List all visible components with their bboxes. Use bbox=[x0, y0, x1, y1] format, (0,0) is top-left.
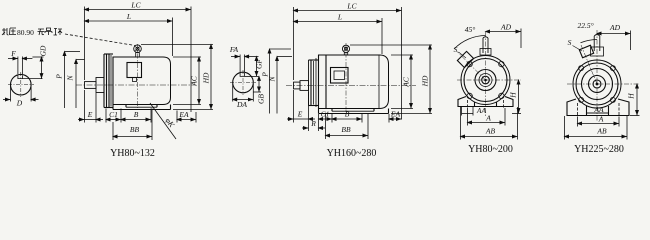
end bracket bbox=[308, 60, 310, 106]
svg-text:BB: BB bbox=[130, 125, 140, 134]
22.5 deg arc and label bbox=[581, 40, 598, 43]
foot hole ticks bbox=[577, 103, 579, 117]
dim D bbox=[10, 86, 12, 102]
svg-text:GD: GD bbox=[39, 45, 48, 56]
dim L bbox=[172, 18, 174, 57]
C1 bbox=[106, 119, 121, 121]
dim N view2 bbox=[277, 56, 292, 58]
eyebolt bbox=[342, 45, 349, 52]
dim LC bbox=[84, 7, 86, 81]
svg-text:L: L bbox=[337, 13, 342, 22]
stepped shaft bbox=[294, 82, 301, 89]
svg-text:AC: AC bbox=[402, 76, 411, 88]
svg-text:B: B bbox=[345, 110, 350, 119]
eyebolt bbox=[593, 36, 595, 51]
svg-text:AB: AB bbox=[596, 127, 607, 136]
dim H bbox=[512, 113, 521, 115]
svg-text:LC: LC bbox=[130, 1, 141, 10]
svg-text:22.5°: 22.5° bbox=[577, 21, 593, 30]
eyebolt bbox=[134, 45, 142, 53]
dim GB bbox=[253, 91, 261, 93]
AA bbox=[587, 112, 609, 114]
terminal box at 45 bbox=[457, 51, 473, 67]
feet bbox=[458, 97, 475, 107]
nameplate bbox=[127, 63, 142, 78]
leader from note to eyebolt bbox=[65, 34, 135, 46]
svg-text:φK: φK bbox=[164, 116, 177, 130]
svg-text:AB: AB bbox=[485, 127, 496, 136]
svg-text:F: F bbox=[10, 49, 16, 58]
svg-text:GF: GF bbox=[255, 59, 264, 69]
环 bbox=[54, 29, 63, 36]
svg-text:S: S bbox=[568, 38, 572, 47]
dim GD bbox=[22, 78, 42, 80]
R bbox=[302, 127, 309, 129]
svg-text:YH225~280: YH225~280 bbox=[574, 144, 624, 155]
dim F bbox=[17, 57, 19, 75]
feet bbox=[331, 109, 333, 112]
body bbox=[319, 55, 389, 109]
机 bbox=[2, 28, 9, 35]
leader phi-K bbox=[150, 103, 176, 139]
E bbox=[78, 119, 85, 121]
dim FA bbox=[239, 55, 241, 73]
BB bbox=[325, 114, 327, 139]
svg-text:H: H bbox=[627, 93, 636, 100]
keyway notch bbox=[18, 75, 23, 78]
AB bbox=[564, 116, 566, 140]
foot hole ticks bbox=[467, 100, 469, 108]
svg-text:45°: 45° bbox=[465, 25, 476, 34]
AA bbox=[461, 107, 463, 116]
feet bbox=[112, 105, 114, 110]
dim HD view2 bbox=[350, 44, 432, 46]
svg-text:EA: EA bbox=[390, 110, 401, 119]
svg-text:HD: HD bbox=[202, 72, 211, 84]
B bbox=[332, 118, 362, 120]
svg-text:C1: C1 bbox=[109, 110, 118, 119]
shaft centerline bbox=[76, 84, 196, 86]
svg-text:HD: HD bbox=[421, 75, 430, 87]
svg-text:E: E bbox=[87, 110, 93, 119]
bottom dim chain bbox=[84, 90, 86, 123]
dim H bbox=[630, 115, 640, 117]
svg-text:BB: BB bbox=[341, 125, 351, 134]
svg-text:R: R bbox=[310, 119, 316, 128]
fan cowl seam bbox=[378, 55, 380, 109]
svg-text:N: N bbox=[268, 76, 277, 83]
A bbox=[577, 117, 579, 127]
svg-text:80.90: 80.90 bbox=[17, 28, 34, 37]
shaft end view circle D bbox=[10, 74, 31, 95]
svg-text:A: A bbox=[485, 114, 491, 123]
svg-text:DA: DA bbox=[236, 100, 247, 109]
B bbox=[121, 119, 151, 121]
centerlines bbox=[567, 83, 640, 85]
centerlines bbox=[457, 79, 521, 81]
dim AD bbox=[630, 31, 632, 51]
svg-text:E: E bbox=[297, 110, 303, 119]
terminal box bbox=[331, 68, 349, 84]
vertical centerline of eyebolt bbox=[137, 44, 139, 108]
eyebolt bbox=[482, 38, 484, 53]
svg-text:D: D bbox=[16, 99, 23, 108]
svg-text:AD: AD bbox=[500, 23, 512, 32]
shaft bbox=[85, 82, 97, 89]
note: chinese annotation 机座80、90无吊环 (drawn as strokes, no CJK font available) bbox=[2, 28, 62, 37]
C1 bbox=[319, 118, 333, 120]
svg-text:B: B bbox=[134, 110, 139, 119]
terminal box at 22.5 bbox=[579, 45, 593, 58]
BB bbox=[112, 122, 114, 140]
dim GF bbox=[245, 75, 259, 77]
EA bbox=[177, 119, 196, 121]
svg-text:AD: AD bbox=[609, 23, 621, 32]
svg-text:GB: GB bbox=[257, 94, 266, 104]
svg-text:AA: AA bbox=[476, 106, 487, 115]
dim AC bbox=[173, 56, 201, 58]
无 bbox=[38, 29, 45, 35]
svg-text:AA: AA bbox=[593, 105, 604, 114]
svg-text:H: H bbox=[509, 92, 518, 99]
svg-text:LC: LC bbox=[346, 2, 357, 11]
座 bbox=[10, 28, 17, 35]
dim N bbox=[76, 59, 85, 61]
eyebolt centerline bbox=[345, 43, 347, 111]
dim L view2 bbox=[381, 18, 383, 54]
end bracket / bearing boss bbox=[96, 78, 104, 93]
svg-text:YH80~200: YH80~200 bbox=[468, 144, 513, 155]
feet bbox=[567, 99, 587, 116]
svg-text:C1: C1 bbox=[321, 110, 330, 119]
AB bbox=[460, 107, 462, 140]
A bbox=[467, 108, 469, 126]
dim AC view2 bbox=[391, 54, 413, 56]
shaft end view circle DA bbox=[233, 72, 254, 93]
svg-text:AC: AC bbox=[190, 75, 199, 87]
motor body bbox=[113, 57, 171, 105]
45 deg arc and label bbox=[454, 36, 486, 50]
svg-text:L: L bbox=[126, 12, 131, 21]
吊 bbox=[45, 28, 52, 35]
dim LC view2 bbox=[293, 7, 295, 80]
dim DA bbox=[232, 84, 234, 102]
dim HD bbox=[141, 44, 213, 46]
dim P view2 bbox=[270, 48, 292, 50]
svg-text:FA: FA bbox=[229, 45, 239, 54]
svg-text:N: N bbox=[66, 75, 75, 82]
E bbox=[287, 118, 294, 120]
svg-text:YH80~132: YH80~132 bbox=[110, 148, 155, 159]
svg-text:YH160~280: YH160~280 bbox=[327, 148, 377, 159]
dim AD bbox=[520, 29, 522, 49]
svg-text:A: A bbox=[598, 115, 604, 124]
svg-text:EA: EA bbox=[178, 110, 189, 119]
EA bbox=[389, 118, 402, 120]
centerlines of circle bbox=[20, 72, 22, 97]
bottom chain view2 bbox=[293, 90, 295, 123]
main side view 2 bbox=[286, 85, 416, 87]
dim P bbox=[65, 51, 81, 53]
svg-text:P: P bbox=[55, 74, 64, 80]
